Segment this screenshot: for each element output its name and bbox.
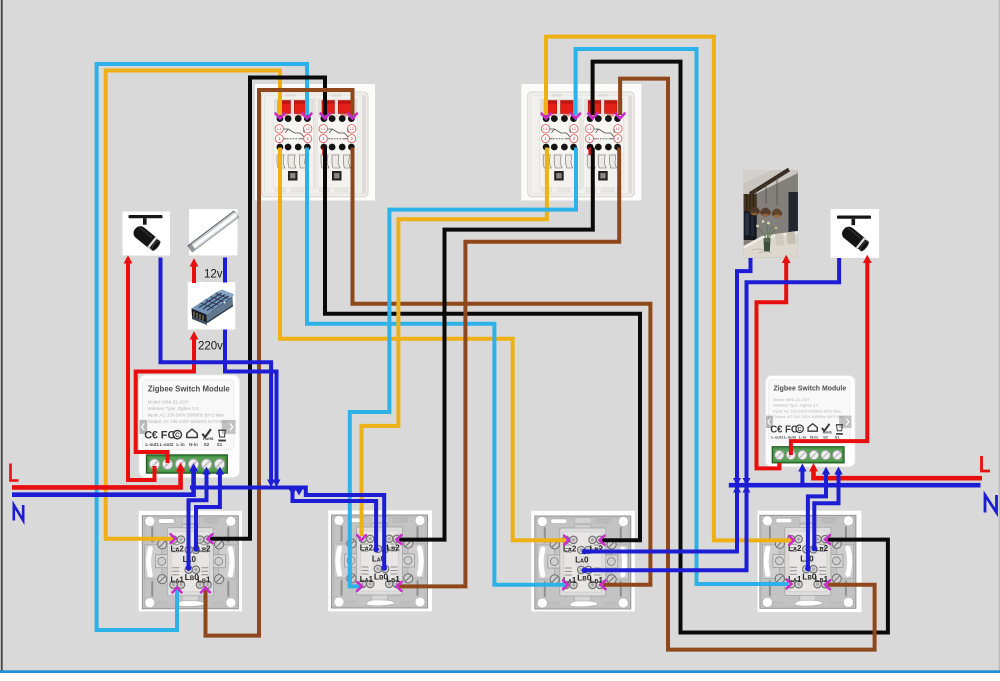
wire blue: room light N to bus and S3 LA0 xyxy=(586,258,751,552)
arrow blue into U1 N-in xyxy=(189,463,198,472)
wire blue: U2 S1 to S4 LA0 xyxy=(814,473,838,547)
wire yellow: SW-A gang1 out to S3 LA2 xyxy=(280,148,566,541)
arrow red into room light xyxy=(782,255,791,263)
connector arrows S1 xyxy=(171,534,176,543)
wire red: right L bus into U2 xyxy=(814,470,983,478)
wire red: U2 L-out2 to spotlight L2 xyxy=(791,260,867,455)
spotlight lamp L2 xyxy=(837,216,871,253)
wire black: SW-A gang2 out to S3 LB2 xyxy=(325,148,640,541)
wall switch S3 xyxy=(535,516,631,609)
label N right xyxy=(985,495,997,513)
wire blue: PSU N to bus xyxy=(225,330,277,485)
wall switch S1 backdrop xyxy=(139,511,243,612)
right edge line xyxy=(999,0,1000,671)
svg-text:220v: 220v xyxy=(198,341,223,353)
wire blue: spotlight L1 N to bus xyxy=(161,258,272,485)
spotlight icon box left xyxy=(123,212,171,256)
zigbee module U1 (left) xyxy=(139,375,240,478)
spotlight icon box right xyxy=(831,209,879,258)
connector arrows S4 xyxy=(789,536,794,545)
label N left xyxy=(14,505,23,521)
room photo (dining room with pendant lights) xyxy=(744,170,798,258)
wire red: U2 L-out1 to room light xyxy=(757,260,787,468)
wire blue: N bus into U2 L-in screw xyxy=(800,470,804,484)
wire blue: U1 S1 to S1 LA0 xyxy=(196,473,220,548)
switch block SW-B backdrop xyxy=(521,84,641,201)
junction marks on left N bus xyxy=(267,480,275,488)
bottom separator blue line xyxy=(0,670,1000,673)
arrow blue into U1 S2 xyxy=(202,467,210,475)
LED strip profile xyxy=(188,211,239,252)
wall switch S3 backdrop xyxy=(531,511,635,612)
wire red: left L bus into U1 L-in xyxy=(12,470,181,487)
junction marks on right N bus xyxy=(733,478,741,486)
zigbee module U2 (right) xyxy=(765,375,855,467)
wire blue: N bus tap to S2 LA0 xyxy=(293,488,377,549)
switch block SW-B (two-gang mechanism, right) xyxy=(528,92,635,197)
connector arrows SW-A top xyxy=(303,114,312,119)
wire blue: U2 S2 to S4 LB0 xyxy=(808,473,826,567)
wire blue: left N bus into U1 N-in xyxy=(12,470,194,495)
wire black: SW-B gang2 out to S2 LB2 xyxy=(399,148,593,540)
label L left xyxy=(11,464,19,481)
svg-text:12v: 12v xyxy=(204,269,223,281)
arrow red into LED strip 12v xyxy=(190,258,199,266)
wire blue: right N bus xyxy=(729,483,981,488)
wire brown: SW-B gang2 L2 top to S4 LB1 xyxy=(620,79,875,650)
wire black: S1 LB2 to SW-A gang2 L1 xyxy=(210,78,325,539)
arrow blue into U2 S2 xyxy=(822,467,830,475)
wire brown: SW-A gang2 out to S3 LB1 xyxy=(353,148,651,585)
wire cyan: SW-B gang1 out to S2 LA1 xyxy=(350,148,576,587)
label L right xyxy=(982,456,991,471)
connector arrows S2 xyxy=(357,535,366,540)
left window border xyxy=(1,0,3,671)
arrow blue into U1 S1 xyxy=(216,467,224,475)
wire blue: spotlight L2 N to bus and S3 LB0 xyxy=(586,258,839,570)
wire red: U1 L-out1 to spotlight L1 xyxy=(128,261,155,480)
12v LED driver PSU xyxy=(192,290,235,326)
arrow blue into U2 screw3 xyxy=(798,464,806,472)
12v power supply photo box xyxy=(188,282,236,329)
wire red: U1 L-out2 to PSU 220v xyxy=(136,336,194,463)
wall switch S1 xyxy=(142,516,238,609)
wire yellow: SW-B gang1 out to S2 LA2 xyxy=(362,148,547,537)
wire cyan: S1 LA1 to SW-A gang1 L2 xyxy=(97,64,307,630)
wall switch S2 backdrop xyxy=(328,510,432,611)
wire red: PSU 12v to LED strip xyxy=(192,264,196,283)
terminal dots xyxy=(186,565,192,571)
arrow red into spotlight L1 xyxy=(124,255,133,263)
arrow red into U1 L-in xyxy=(176,463,185,472)
LED strip icon box xyxy=(189,209,238,255)
wire brown: S1 LB1 to SW-A gang2 L2 xyxy=(206,90,353,636)
wire cyan: SW-B gang1 L2 top to S4 LA1 xyxy=(576,49,789,584)
switch block SW-A backdrop xyxy=(255,84,375,201)
arrow blue into U2 S1 xyxy=(834,467,842,475)
wall switch S4 backdrop xyxy=(758,511,862,612)
wire blue: N distribution bus to S2 LB0 xyxy=(190,488,384,567)
wire yellow: S1 LA2 to SW-A gang1 L1 xyxy=(106,71,280,539)
connector arrows S3 xyxy=(564,536,569,545)
wire black: SW-B gang2 L1 top to S4 LB2 xyxy=(593,62,888,633)
wire blue: U1 S2 to S1 LB0 xyxy=(189,473,207,567)
switch block SW-A (two-gang mechanism, left) xyxy=(262,92,369,197)
arrow red into U2 screw xyxy=(809,463,818,472)
wall switch S2 xyxy=(332,515,428,608)
wall switch S4 xyxy=(760,515,856,608)
wire cyan: SW-A gang1 out to S3 LA1 xyxy=(307,148,565,585)
connector arrows SW-B top xyxy=(542,114,551,119)
wire brown: SW-B gang2 out to S2 LB1 xyxy=(399,148,619,587)
wire yellow: SW-B gang1 L1 top to S4 LA2 xyxy=(546,37,791,541)
arrow red into spotlight L2 xyxy=(863,255,872,263)
spotlight lamp L1 xyxy=(129,215,163,252)
wire blue: LED strip return to PSU xyxy=(223,258,227,283)
bottom white strip xyxy=(0,673,1000,681)
arrow red into PSU 220v xyxy=(190,331,199,339)
